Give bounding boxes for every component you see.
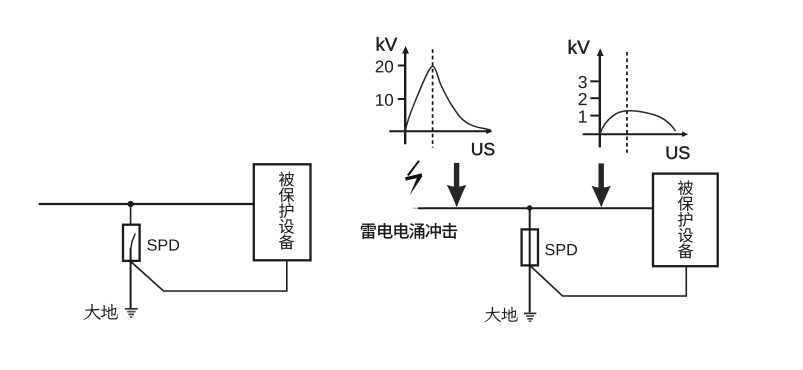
graph1: US axis label [472, 143, 494, 155]
wire: right circuit phase line [418, 207, 654, 209]
graph1: label 10 [376, 94, 393, 106]
wire: junction through SPD2 to earth [529, 208, 531, 312]
box: left protected equipment [254, 164, 311, 260]
SPD1 surge protective device body [123, 225, 140, 261]
wire: SPD1 bottom lead to earth [130, 248, 132, 308]
box: right protected equipment [653, 174, 718, 267]
graph1: tick 20 [398, 65, 405, 67]
graph1: dashed peak marker line [432, 49, 434, 147]
lightning bolt symbol [405, 160, 422, 195]
graph2: tick 1 [590, 115, 600, 117]
graph2: kV axis label [569, 40, 590, 54]
ground: left earth symbol [125, 309, 138, 317]
graph1: tick 10 [398, 98, 405, 100]
graph2: residual voltage curve [600, 111, 676, 134]
graph2: label 2 [579, 93, 587, 105]
graph2: vertical axis with arrow [599, 52, 601, 147]
wire: junction to SPD1 top lead [130, 204, 132, 235]
label: right box text 被保护设备 (vertical) [678, 180, 694, 258]
graph2: dashed marker line [626, 52, 628, 153]
label: SPD1 text [147, 239, 179, 250]
graph2: label 1 [579, 111, 587, 123]
graph2: tick 2 [590, 97, 600, 99]
graph1: horizontal axis with arrow [389, 130, 487, 132]
label: 雷电电涌冲击 (lightning surge) [361, 223, 457, 239]
graph1: vertical axis with arrow [404, 50, 406, 144]
graph1: impulse voltage curve [405, 66, 491, 131]
graph1: label 20 [376, 61, 393, 73]
arrow: surge arrow 2 [592, 163, 611, 207]
graph2: tick 3 [590, 80, 600, 82]
wire: left circuit phase line [39, 203, 254, 205]
node: left junction dot [128, 201, 134, 207]
graph2: US axis label [667, 146, 690, 159]
SPD2 surge protective device body [522, 229, 538, 265]
label: left box text 被保护设备 (vertical) [279, 172, 295, 250]
label: SPD2 text [545, 244, 577, 255]
wire: SPD1 earth bond diagonal [131, 260, 286, 292]
wire: faint lead-in at left end of right phase line [413, 207, 419, 209]
graph2: label 3 [578, 76, 586, 88]
wire: SPD2 earth bond diagonal [531, 266, 687, 297]
graph2: horizontal axis with arrow [583, 133, 683, 135]
label: left 大地 (earth) [84, 304, 118, 320]
label: right 大地 (earth) [484, 307, 517, 322]
node: right junction dot [527, 205, 532, 210]
graph1: kV axis label [377, 37, 397, 50]
arrow: surge arrow 1 [447, 163, 467, 208]
SPD1 internal switch (spark gap) line [131, 234, 136, 249]
ground: right earth symbol [524, 313, 536, 321]
